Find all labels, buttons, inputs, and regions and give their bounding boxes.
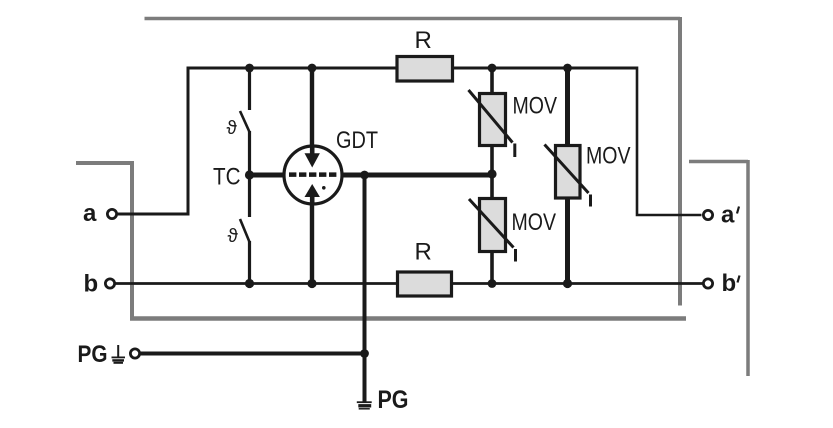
svg-text:R: R [415,239,432,266]
svg-text:MOV: MOV [512,209,557,236]
svg-text:b: b [722,270,737,297]
svg-text:PG: PG [378,386,409,414]
svg-text:MOV: MOV [513,93,558,120]
svg-text:ϑ: ϑ [227,118,238,139]
svg-text:a: a [721,202,735,229]
svg-text:ϑ: ϑ [228,226,239,247]
svg-text:MOV: MOV [586,143,631,170]
svg-text:a: a [83,200,97,227]
svg-text:GDT: GDT [336,127,378,154]
svg-text:TC: TC [213,164,241,191]
svg-text:R: R [415,27,432,54]
svg-text:b: b [84,271,99,298]
svg-text:PG: PG [78,341,108,368]
